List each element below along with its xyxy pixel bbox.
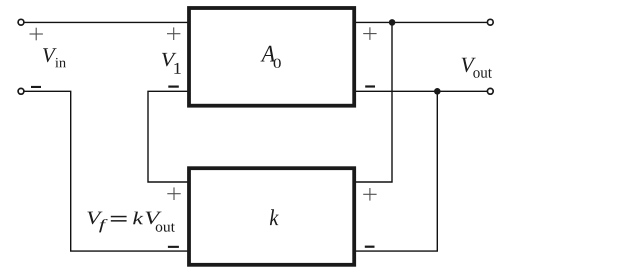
wire: A0 - input left, down, to k block left + terminal	[148, 91, 189, 182]
wire: node at Vout- line down to k block right - input	[354, 91, 437, 251]
output terminal Vout- (open circle)	[487, 88, 493, 94]
label Vout	[462, 58, 492, 78]
wire: Vin+ terminal to A0 + input	[25, 21, 190, 23]
label Vin	[43, 48, 66, 67]
input terminal Vin- (open circle)	[18, 88, 24, 94]
minus sign at k block right -	[365, 246, 375, 248]
wire: A0 + output to Vout+ terminal	[354, 21, 487, 23]
label k (feedback factor)	[270, 209, 279, 225]
wire: A0 - output to Vout- terminal	[354, 90, 487, 92]
output terminal Vout+ (open circle)	[487, 19, 493, 25]
plus sign at A0 + input (V1)	[167, 27, 180, 40]
plus sign at k block right +	[363, 188, 376, 201]
node (junction dot) on Vout+ line	[389, 19, 396, 26]
plus sign at k block left +	[167, 187, 180, 200]
wire: Vin- terminal right, down, to k block left - terminal	[25, 91, 190, 251]
label A0 (amplifier gain)	[261, 46, 281, 68]
feedback block k	[189, 168, 354, 265]
node (junction dot) on Vout- line	[434, 88, 441, 95]
minus sign at Vin-	[31, 86, 41, 88]
minus sign at k block left -	[168, 246, 179, 248]
minus sign at A0 - input	[168, 86, 179, 88]
label Vf = kVout	[87, 212, 174, 233]
plus sign at Vin+	[30, 28, 43, 41]
input terminal Vin+ (open circle)	[18, 19, 24, 25]
amplifier block A0	[189, 8, 354, 106]
plus sign at A0 + output	[363, 27, 376, 40]
label V1	[162, 53, 181, 74]
minus sign at A0 - output	[365, 85, 375, 87]
wire: node at Vout+ line down to k block right + input	[354, 22, 392, 182]
